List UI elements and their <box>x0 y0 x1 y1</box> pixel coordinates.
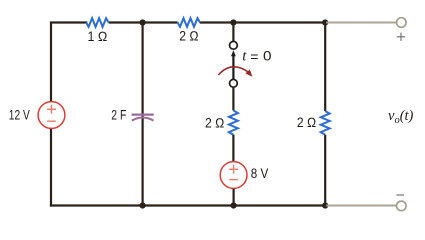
switch arrow <box>231 50 236 79</box>
wire capacitor branch <box>142 21 144 206</box>
svg-text:2 Ω: 2 Ω <box>205 116 225 131</box>
wire right branch lower <box>324 135 326 207</box>
switch closing arc arrow <box>218 67 252 77</box>
wire switch to R3 <box>232 88 234 111</box>
node dot top switch <box>230 19 236 25</box>
resistor R3 2ohm middle <box>229 110 238 134</box>
node dot top capacitor <box>140 19 146 25</box>
svg-text:0: 0 <box>263 49 271 64</box>
minus sign output <box>396 194 404 196</box>
wire gray bottom lead <box>326 205 396 207</box>
svg-text:2 Ω: 2 Ω <box>297 115 317 130</box>
voltage source V1 12V <box>38 102 65 129</box>
wire V2 to bottom <box>233 189 235 207</box>
terminal bottom <box>397 201 407 211</box>
wire right branch upper <box>324 21 326 111</box>
wire left-bottom segment <box>50 129 52 207</box>
switch lower contact <box>230 79 238 87</box>
node dot bottom switch branch <box>231 202 237 208</box>
wire switch stub <box>232 21 234 41</box>
wire gray top lead <box>326 22 396 24</box>
svg-text:8 V: 8 V <box>251 166 269 181</box>
node dot bottom right <box>322 202 328 208</box>
svg-text:2 F: 2 F <box>111 107 126 122</box>
capacitor C1 2F <box>132 115 154 121</box>
resistor R1 1ohm <box>86 18 108 27</box>
node dot top right <box>322 19 328 25</box>
label t = 0 <box>242 49 271 65</box>
wire top-left segment <box>51 23 86 102</box>
wire top between R2 and right node <box>200 21 327 23</box>
resistor R2 2ohm top <box>178 18 200 27</box>
wire top between R1 and R2 <box>109 21 178 23</box>
wire R3 to V2 <box>232 135 234 163</box>
svg-text:vo(t): vo(t) <box>388 108 414 126</box>
wire bottom rail <box>50 204 326 206</box>
svg-text:12 V: 12 V <box>9 108 30 123</box>
voltage source V2 8V <box>220 162 247 189</box>
svg-text:2 Ω: 2 Ω <box>179 28 199 43</box>
terminal top <box>397 18 407 28</box>
resistor R4 2ohm right <box>321 111 330 135</box>
switch upper contact <box>230 41 238 49</box>
plus sign output <box>397 33 405 41</box>
node dot bottom capacitor <box>140 202 146 208</box>
svg-text:=: = <box>250 49 258 65</box>
svg-text:1 Ω: 1 Ω <box>88 29 108 44</box>
